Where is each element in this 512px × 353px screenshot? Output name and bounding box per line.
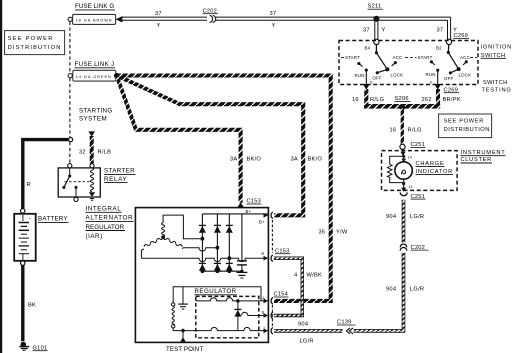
B+ rail [202, 213, 268, 215]
instrument cluster dashed box [382, 151, 458, 191]
ignition switch right wafer [418, 44, 472, 85]
regulator I line [183, 327, 265, 330]
svg-text:904: 904 [298, 322, 308, 328]
svg-text:R/LG: R/LG [370, 97, 384, 103]
svg-text:SEE POWER: SEE POWER [8, 36, 53, 42]
svg-text:FUSE LINK G: FUSE LINK G [75, 3, 115, 10]
svg-text:DISTRIBUTION: DISTRIBUTION [8, 45, 61, 51]
regulator ground [178, 304, 188, 309]
connector C202 (top) [203, 8, 219, 23]
svg-text:37: 37 [155, 11, 162, 17]
terminal A arrow [264, 299, 269, 304]
capacitor column [241, 214, 243, 261]
svg-text:LG/R: LG/R [300, 339, 314, 345]
svg-text:Y/W: Y/W [336, 230, 348, 236]
regulator A line [196, 298, 265, 301]
svg-text:BR/PK: BR/PK [443, 97, 461, 103]
svg-text:+: + [29, 217, 31, 221]
wire 904 LG/R vertical (lower) [274, 253, 405, 332]
svg-text:R/LB: R/LB [98, 150, 112, 156]
regulator ground stem [182, 287, 184, 304]
connector C251 (top) [400, 142, 426, 149]
arrow into alternator B+ top [237, 202, 243, 207]
connector C202 (on 904 wire) [400, 243, 429, 252]
regulator top rail [173, 287, 261, 303]
svg-text:904: 904 [386, 287, 396, 293]
svg-text:SYSTEM: SYSTEM [79, 116, 107, 123]
wire 904 LG/R vertical (upper) [402, 200, 405, 243]
svg-text:A: A [262, 295, 265, 300]
connector C153 label (B+ top) [247, 199, 262, 205]
splice S211 [368, 4, 384, 22]
stator coil up [162, 223, 165, 237]
regulator S line [242, 312, 266, 315]
svg-text:14 GA GREEN: 14 GA GREEN [76, 75, 111, 79]
label STARTING SYSTEM [79, 108, 113, 123]
regulator zener diode [234, 301, 241, 331]
relay link dashed [65, 181, 91, 183]
wire 32 R/LB (starting system to starter relay) [79, 131, 111, 163]
S206 bus bar wire [364, 104, 440, 109]
svg-text:TEST POINT: TEST POINT [166, 346, 204, 353]
svg-text:OFF: OFF [373, 76, 382, 81]
svg-text:904: 904 [386, 214, 396, 220]
connector C154 bracket [271, 305, 273, 327]
svg-text:B+: B+ [259, 219, 265, 224]
connector C269 label (bottom) [444, 87, 460, 93]
charge indicator lamp [403, 156, 405, 161]
battery [14, 209, 68, 266]
svg-text:I1: I1 [370, 81, 373, 85]
label IGNITION SWITCH [481, 45, 512, 59]
ignition switch left wafer [345, 44, 403, 84]
svg-text:SWITCH: SWITCH [483, 80, 508, 86]
connector C269 label (top) [454, 33, 470, 39]
svg-text:IGNITION: IGNITION [481, 45, 512, 51]
wire 16 R/LG down to C251 [401, 109, 404, 145]
regulator dashed box [196, 296, 259, 337]
regulator assembly [173, 287, 261, 304]
splice S206 [395, 96, 411, 110]
svg-text:14: 14 [408, 155, 412, 159]
wire 4 W/BK (S to S loop) [274, 257, 304, 317]
svg-text:32: 32 [79, 150, 86, 156]
stator tap to diode column 2 (with hop) [182, 248, 217, 251]
svg-text:REGULATOR: REGULATOR [86, 224, 125, 231]
connector circle at ignition switch pin B4 [374, 39, 379, 44]
test point lead [180, 331, 185, 342]
relay contact [69, 168, 71, 176]
label INTEGRAL ALTERNATOR REGULATOR (IAR) [86, 206, 134, 240]
relay coil ground [89, 192, 95, 197]
arrow B+ right terminal [264, 213, 269, 218]
svg-text:3A: 3A [291, 157, 298, 163]
connector C154 label [274, 292, 289, 298]
dashed tie line (fuse links to battery junction to relay) [69, 22, 71, 164]
wire 35 Y/W (fuse link J to regulator A terminal) [117, 76, 331, 301]
page left border [0, 0, 2, 353]
svg-text:ACC: ACC [460, 55, 470, 60]
fuse link G [68, 3, 122, 24]
label STARTER RELAY [104, 168, 136, 183]
svg-text:RUN: RUN [426, 72, 436, 77]
diode column 3 [228, 214, 230, 271]
wire 37 Y (fuse link G to S211 to C269), double line [122, 17, 451, 39]
svg-text:RELAY: RELAY [104, 176, 127, 183]
terminal S arrow (regulator) [264, 313, 269, 318]
junction dots rectifier [201, 237, 232, 273]
svg-text:S: S [262, 310, 265, 315]
see power distribution box (top left) [5, 31, 65, 55]
svg-text:S: S [261, 251, 264, 256]
svg-text:BK/O: BK/O [308, 157, 323, 163]
wire 3A BK/O (fuse link J to alternator B+ top) [117, 76, 241, 203]
stator coil down-right [163, 238, 182, 247]
svg-text:BK: BK [28, 302, 36, 308]
svg-text:INTEGRAL: INTEGRAL [86, 206, 122, 213]
svg-text:DISTRIBUTION: DISTRIBUTION [444, 127, 490, 133]
svg-text:B4: B4 [365, 46, 371, 51]
fuse link J [68, 61, 119, 81]
connector arc at A [271, 298, 273, 305]
svg-text:4: 4 [294, 273, 297, 279]
arrow out of switch (right, circuit 262) [434, 84, 441, 90]
label SWITCH TESTING [482, 80, 512, 94]
relay coil [90, 168, 93, 192]
svg-text:ACC: ACC [393, 55, 403, 60]
wire stub left into S206 bar [364, 89, 368, 106]
svg-text:(IAR): (IAR) [86, 233, 103, 240]
starter relay [58, 164, 100, 202]
stator tap to S terminal (with hops) [141, 258, 265, 261]
rectifier diodes (lower row) [199, 263, 233, 270]
wire 3A BK/O (fuse link J to alternator B+ side) [117, 76, 304, 216]
svg-text:262: 262 [422, 97, 432, 103]
label INSTRUMENT CLUSTER [461, 150, 506, 163]
connector C139 [337, 320, 356, 336]
svg-text:TESTING: TESTING [482, 88, 512, 94]
stator center node [161, 235, 165, 239]
charge indicator internals [387, 150, 453, 192]
svg-text:CLUSTER: CLUSTER [461, 157, 492, 163]
svg-text:REGULATOR: REGULATOR [195, 288, 237, 295]
bottom rail [202, 270, 242, 272]
svg-text:BK/O: BK/O [247, 157, 262, 163]
svg-text:3A: 3A [230, 157, 237, 163]
svg-text:RUN: RUN [355, 73, 365, 78]
svg-text:37: 37 [363, 28, 370, 34]
svg-text:LG/R: LG/R [410, 214, 424, 220]
svg-text:I: I [264, 325, 265, 330]
arrow out of switch (left, circuit 16) [363, 84, 370, 90]
svg-text:SEE POWER: SEE POWER [444, 118, 484, 124]
svg-text:STARTING: STARTING [79, 108, 113, 115]
svg-text:37: 37 [270, 11, 277, 17]
capacitor ground [236, 272, 247, 278]
svg-text:37: 37 [437, 28, 444, 34]
svg-text:Y: Y [382, 28, 386, 34]
label REGULATOR [195, 288, 238, 295]
rectifier bridge [202, 214, 268, 271]
mechanical link dashed line [341, 57, 477, 59]
svg-text:FUSE LINK J: FUSE LINK J [75, 61, 115, 68]
svg-text:Y: Y [272, 23, 276, 29]
connector arc at I [271, 328, 273, 335]
ignition switch dashed box [339, 41, 478, 85]
svg-text:16: 16 [390, 128, 397, 134]
connector C251 (bottom) [400, 192, 425, 199]
svg-text:STARTER: STARTER [104, 168, 135, 175]
see power distribution box (right) [439, 114, 492, 138]
svg-text:BATTERY: BATTERY [38, 216, 68, 223]
svg-text:LG/R: LG/R [410, 287, 424, 293]
stator coil down-left [144, 238, 163, 247]
connector arc at S (regulator) [271, 312, 273, 319]
connector C153 bracket [271, 220, 273, 253]
diode column 2 [216, 214, 218, 271]
connector arc at S [271, 255, 273, 262]
svg-text:R/LG: R/LG [408, 128, 422, 134]
terminal I arrow [264, 329, 269, 334]
svg-text:16: 16 [352, 97, 359, 103]
svg-text:B2: B2 [436, 45, 442, 50]
svg-text:LOCK: LOCK [459, 73, 472, 78]
svg-text:INSTRUMENT: INSTRUMENT [461, 150, 506, 156]
svg-text:35: 35 [319, 230, 326, 236]
rectifier diodes (upper row) [199, 225, 233, 232]
arrow S terminal [264, 256, 269, 261]
alternator box [135, 208, 268, 343]
svg-text:LOCK: LOCK [391, 73, 404, 78]
stator windings [141, 215, 265, 262]
svg-text:18 GA BROWN: 18 GA BROWN [76, 19, 112, 23]
connector circle at ignition switch pin B2 [446, 39, 451, 44]
wire R (battery positive) [23, 140, 69, 211]
svg-text:W/BK: W/BK [307, 273, 323, 279]
svg-text:Y: Y [157, 23, 161, 29]
svg-text:R: R [27, 182, 31, 188]
svg-text:S211: S211 [368, 4, 382, 10]
wire stub right into S206 bar (C269) [436, 89, 440, 106]
capacitor [237, 261, 247, 273]
svg-text:ALTERNATOR: ALTERNATOR [86, 215, 134, 222]
field coil with brushes [172, 303, 182, 331]
svg-text:START: START [418, 55, 433, 60]
svg-text:OFF: OFF [444, 76, 453, 81]
diode column 1 [201, 214, 203, 271]
svg-text:13: 13 [408, 185, 412, 189]
ground G101 [19, 342, 47, 352]
svg-text:B+: B+ [246, 209, 252, 214]
svg-text:START: START [345, 55, 360, 60]
resistor (charge indicator shunt) [387, 164, 392, 177]
connector C153 label (S) [275, 248, 290, 254]
wire BK (battery negative) [21, 265, 24, 341]
